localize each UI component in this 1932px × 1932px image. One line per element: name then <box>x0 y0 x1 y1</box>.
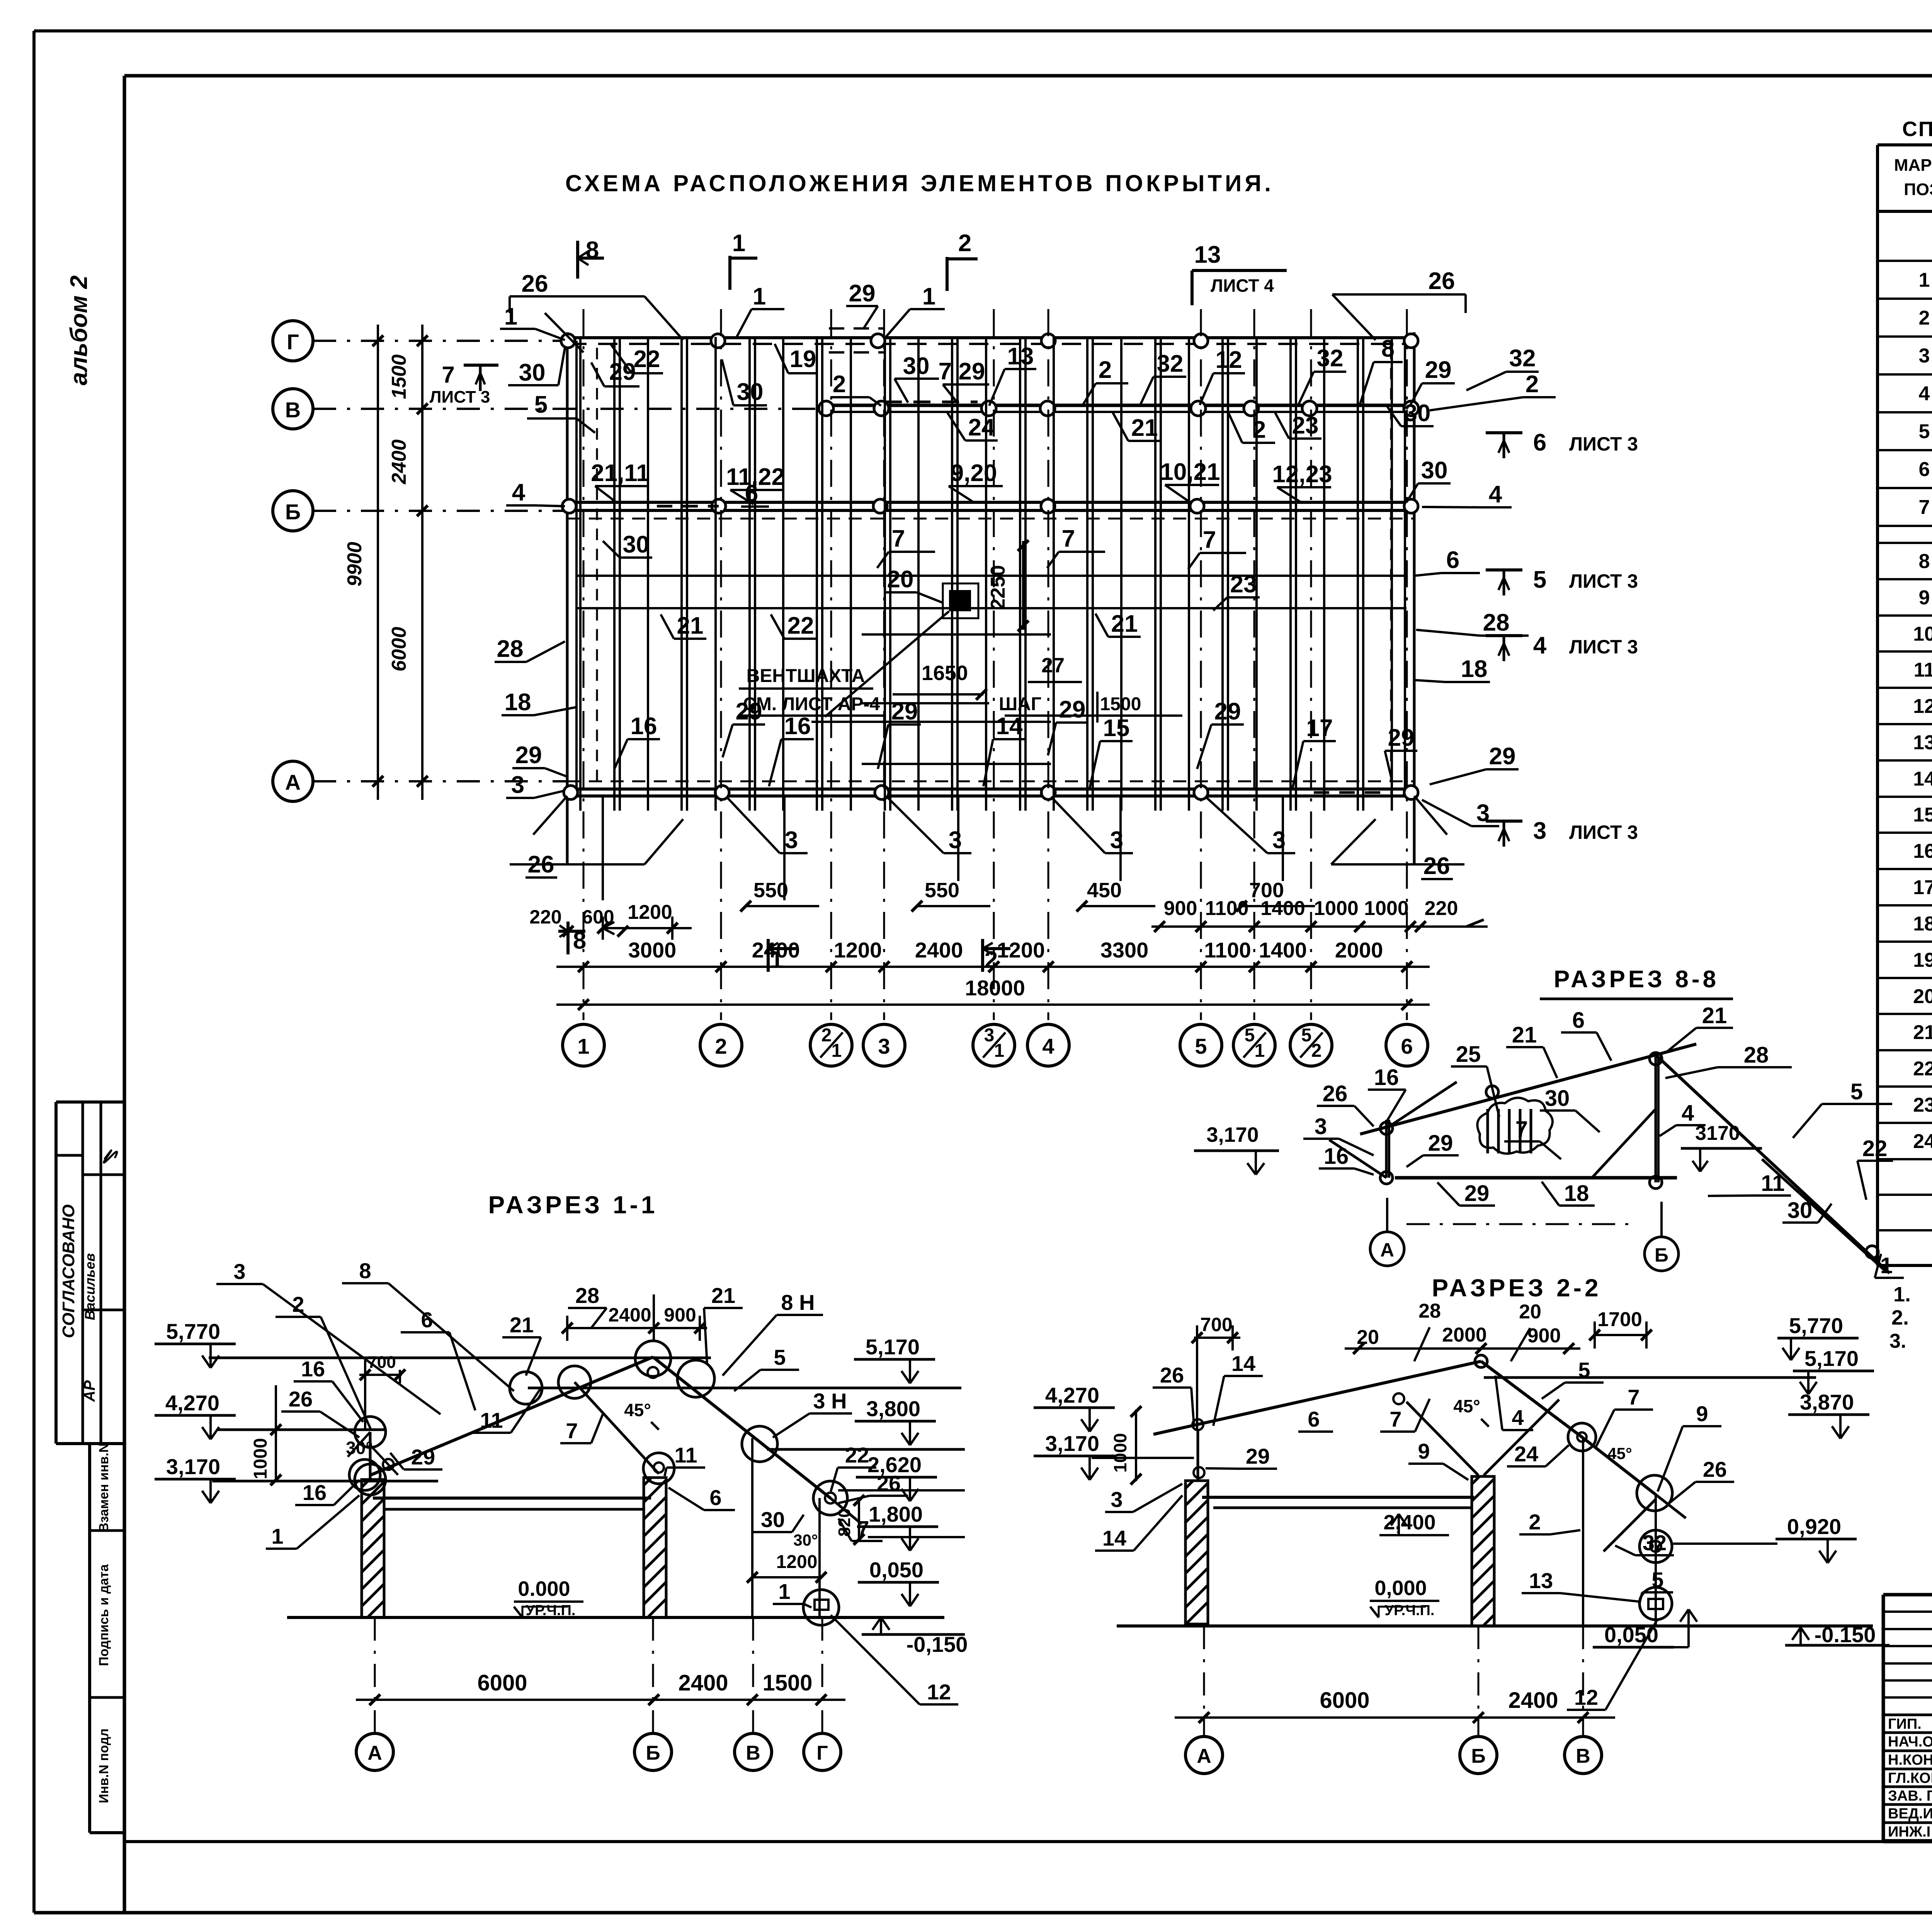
svg-text:2: 2 <box>1529 1510 1541 1534</box>
joint circle on А <box>1404 786 1418 799</box>
s22 eave stub <box>1197 1430 1199 1481</box>
mark 6 лист 3 <box>1486 429 1638 458</box>
svg-text:24: 24 <box>968 414 995 441</box>
svg-text:2: 2 <box>1919 307 1930 329</box>
s11 dim 2400 900 <box>562 1294 707 1341</box>
svg-text:УР.Ч.П.: УР.Ч.П. <box>526 1602 576 1619</box>
label 15 <box>1090 715 1133 788</box>
table row 13 <box>1913 731 1932 754</box>
bottom margin band line <box>124 1840 1932 1843</box>
svg-text:ВЕД.ИНЖ: ВЕД.ИНЖ <box>1888 1806 1932 1822</box>
s88 label 26 <box>1317 1081 1374 1126</box>
axis chain line 2 <box>720 309 722 1020</box>
label 29 <box>1197 698 1244 769</box>
label 29 <box>878 698 921 769</box>
s22 elev 5.770 <box>1777 1313 1859 1360</box>
svg-text:25: 25 <box>1456 1042 1481 1067</box>
svg-text:19: 19 <box>1913 949 1932 971</box>
svg-text:2: 2 <box>715 1034 727 1058</box>
s11 label 21 <box>502 1313 541 1376</box>
table row 8 <box>1919 550 1932 573</box>
svg-text:1650: 1650 <box>922 662 968 685</box>
s11 elev 1.800 <box>857 1502 965 1551</box>
svg-text:0,000: 0,000 <box>1374 1577 1427 1600</box>
svg-text:23: 23 <box>1292 412 1319 439</box>
svg-text:Б: Б <box>646 1742 660 1764</box>
svg-text:13: 13 <box>1913 731 1932 754</box>
s11 label 1 <box>266 1495 359 1549</box>
section 8-8 axis Б <box>1645 1202 1679 1271</box>
svg-text:24: 24 <box>1514 1442 1538 1466</box>
dim 1500 <box>388 354 410 399</box>
svg-text:1: 1 <box>271 1524 283 1548</box>
svg-text:26: 26 <box>1429 268 1455 294</box>
table row 18 <box>1913 913 1932 935</box>
s11 left rafter <box>371 1357 653 1475</box>
s11 angle 45 <box>624 1400 659 1430</box>
s22 post right <box>1655 1495 1657 1626</box>
svg-text:15: 15 <box>1913 804 1932 826</box>
s22 strut 45 right <box>1604 1499 1656 1551</box>
svg-text:1200: 1200 <box>834 938 882 962</box>
s22 label 4 <box>1495 1376 1533 1430</box>
s22 label 24 <box>1507 1442 1569 1466</box>
joint circle on В <box>819 401 833 416</box>
label 2 <box>831 371 881 406</box>
svg-text:29: 29 <box>891 698 918 725</box>
joint circle on Г <box>871 334 885 348</box>
svg-text:18000: 18000 <box>965 976 1025 1000</box>
s22 label 14 <box>1213 1351 1263 1426</box>
section 8-8 ground chain <box>1406 1223 1638 1225</box>
svg-text:ЛИСТ 3: ЛИСТ 3 <box>1569 636 1638 658</box>
svg-text:Взамен инв.N: Взамен инв.N <box>97 1443 111 1532</box>
svg-text:В: В <box>1576 1745 1590 1767</box>
svg-text:6: 6 <box>1533 429 1546 456</box>
joint circle on В <box>1244 401 1259 416</box>
label 18 <box>1414 656 1490 682</box>
svg-text:3: 3 <box>1533 818 1546 844</box>
axis chain line 3/1 <box>993 309 995 1020</box>
svg-text:21: 21 <box>1702 1003 1727 1028</box>
svg-text:А: А <box>367 1742 382 1764</box>
svg-text:29: 29 <box>1246 1444 1270 1468</box>
svg-text:Г: Г <box>287 330 299 354</box>
label 21,11 <box>591 460 650 502</box>
hdr марка поз <box>1894 156 1932 199</box>
svg-text:1500: 1500 <box>388 354 410 399</box>
s11 label 26 <box>281 1387 359 1437</box>
joint circle on Б <box>873 499 887 513</box>
label 23 <box>1213 571 1260 611</box>
axis chain line 5 <box>1200 309 1202 1020</box>
label 30 <box>722 359 767 405</box>
s22 label 29 <box>1206 1444 1277 1469</box>
svg-text:18: 18 <box>1461 656 1488 682</box>
svg-text:23: 23 <box>1913 1094 1932 1116</box>
bottom axis circle 5/1 <box>1233 1024 1275 1066</box>
vertical text Инв.N подл <box>97 1728 111 1803</box>
svg-text:13: 13 <box>1529 1568 1553 1593</box>
svg-text:30°: 30° <box>346 1438 373 1458</box>
svg-text:30: 30 <box>737 379 764 405</box>
text вентшахта <box>739 666 885 716</box>
svg-text:30: 30 <box>519 359 546 386</box>
dim 6000 <box>388 627 410 672</box>
svg-text:1: 1 <box>922 283 935 310</box>
joint circle on Г <box>561 334 575 348</box>
table row 4 <box>1919 383 1932 405</box>
beam on axis А <box>567 781 1414 796</box>
dim row axes <box>556 938 1430 972</box>
label 29 <box>1385 724 1417 777</box>
svg-text:1200: 1200 <box>628 901 672 923</box>
label 23 <box>1275 412 1321 439</box>
s22 elev 0.050 <box>1593 1609 1697 1647</box>
svg-text:В: В <box>285 398 301 422</box>
svg-text:ГЛ.КОНСТ.: ГЛ.КОНСТ. <box>1888 1770 1932 1786</box>
bottom axis circle 3 <box>863 1024 905 1066</box>
svg-text:6: 6 <box>421 1308 433 1332</box>
axis circle В <box>273 389 313 429</box>
svg-text:30: 30 <box>1545 1086 1570 1111</box>
svg-text:ЗАВ. ГР.: ЗАВ. ГР. <box>1888 1788 1932 1804</box>
s88 label 4 <box>1660 1100 1706 1136</box>
svg-text:45°: 45° <box>1607 1444 1632 1463</box>
joint circle on Б <box>1404 499 1418 513</box>
label 7 <box>1047 526 1105 568</box>
svg-text:13: 13 <box>1194 241 1221 268</box>
svg-text:1: 1 <box>778 1579 790 1604</box>
svg-text:3: 3 <box>785 827 798 854</box>
svg-text:16: 16 <box>303 1480 327 1505</box>
svg-text:3: 3 <box>949 827 962 854</box>
svg-text:ПОЗ.: ПОЗ. <box>1904 180 1932 199</box>
s11 axis circle Б <box>634 1617 672 1770</box>
label 30 <box>1406 457 1451 502</box>
table row 20 <box>1913 985 1932 1008</box>
label 1 <box>736 283 784 338</box>
vertical text АР <box>81 1380 98 1402</box>
s22 axis circle В <box>1565 1626 1602 1774</box>
svg-text:7 29: 7 29 <box>939 358 985 385</box>
label 32 <box>1140 350 1186 406</box>
table row 11 <box>1914 659 1932 681</box>
svg-text:5: 5 <box>774 1345 786 1369</box>
svg-text:3: 3 <box>233 1259 245 1284</box>
svg-text:20: 20 <box>1519 1301 1541 1323</box>
svg-text:5: 5 <box>1195 1034 1207 1058</box>
svg-text:Б: Б <box>285 500 301 524</box>
svg-text:ЛИСТ 3: ЛИСТ 3 <box>430 388 490 406</box>
svg-text:0.000: 0.000 <box>518 1577 570 1600</box>
s22 label 3 <box>1105 1484 1182 1512</box>
label 3 <box>506 772 565 798</box>
axis chain line 2/1 <box>830 309 832 1020</box>
svg-text:900: 900 <box>1164 897 1197 920</box>
dashes above В beam <box>885 401 978 403</box>
svg-text:4: 4 <box>1682 1100 1694 1126</box>
table row 23 <box>1913 1094 1932 1116</box>
joint circle on А <box>1194 786 1208 799</box>
svg-text:2400: 2400 <box>388 439 410 485</box>
label 2 <box>1229 413 1275 443</box>
dims 550 550 450 700 <box>740 879 1315 912</box>
svg-text:18: 18 <box>505 689 531 716</box>
joint circle on В <box>981 401 996 416</box>
svg-text:14: 14 <box>996 713 1023 740</box>
svg-text:28: 28 <box>1418 1300 1441 1322</box>
label 20 <box>885 566 943 603</box>
svg-text:В: В <box>746 1742 760 1764</box>
label 17 <box>1293 715 1336 788</box>
vent shaft leader <box>825 611 949 717</box>
dashed vertical left <box>596 348 598 788</box>
svg-text:СМ. ЛИСТ АР-4: СМ. ЛИСТ АР-4 <box>743 694 880 714</box>
label 10,21 <box>1160 459 1220 502</box>
svg-text:29: 29 <box>411 1445 435 1469</box>
s11 eave assembly <box>348 1432 398 1480</box>
svg-text:29: 29 <box>1425 357 1452 383</box>
svg-text:4: 4 <box>512 479 526 506</box>
svg-text:4,270: 4,270 <box>1045 1383 1099 1407</box>
svg-text:А: А <box>1380 1239 1394 1261</box>
joint circle on В <box>874 401 889 416</box>
label 11,22 <box>726 464 785 504</box>
label 6 <box>1414 547 1480 576</box>
svg-text:14: 14 <box>1231 1351 1255 1376</box>
svg-text:26: 26 <box>1423 853 1450 879</box>
joint circle on В <box>1404 401 1418 416</box>
s11 bottom dims <box>356 1670 845 1705</box>
s22 label 14 <box>1095 1495 1182 1551</box>
s11 label 8 Н <box>723 1290 823 1376</box>
s22 label 13 <box>1522 1568 1639 1602</box>
s88 label 11 <box>1708 1171 1791 1196</box>
signature squiggle <box>104 1150 117 1163</box>
beam on axis Г <box>567 338 1414 344</box>
svg-text:9: 9 <box>1919 587 1930 609</box>
svg-text:28: 28 <box>575 1283 599 1308</box>
s11 column A <box>362 1480 384 1617</box>
axis chain line 1 <box>583 309 585 1020</box>
svg-text:11: 11 <box>674 1443 697 1467</box>
s11 label 11 <box>665 1443 705 1476</box>
s11 label 8 <box>342 1259 514 1391</box>
label 29 <box>1410 357 1455 405</box>
s88 label 3 <box>1303 1114 1374 1155</box>
section 1-1 title <box>488 1191 658 1219</box>
svg-text:600: 600 <box>582 906 614 928</box>
svg-text:29: 29 <box>849 280 876 307</box>
label 29 <box>723 698 765 757</box>
section 8-8 cloud <box>1477 1098 1553 1154</box>
joint circle on Г <box>1194 334 1208 348</box>
s11 axis circle Г <box>804 1617 841 1770</box>
s22 label 5 <box>1542 1358 1604 1399</box>
svg-text:5: 5 <box>534 391 548 418</box>
s11 post G <box>818 1498 821 1617</box>
label 3 <box>1422 800 1499 827</box>
label 16 <box>769 713 814 786</box>
joint circle on В <box>1302 401 1317 416</box>
svg-text:7: 7 <box>1203 527 1216 553</box>
joint circle on А <box>564 786 578 799</box>
svg-text:22: 22 <box>845 1443 869 1467</box>
s22 label 9 <box>1658 1401 1721 1492</box>
svg-text:20: 20 <box>887 566 914 593</box>
svg-text:9,20: 9,20 <box>951 460 997 486</box>
table row 14 <box>1913 768 1932 790</box>
label 3 <box>1206 797 1295 854</box>
svg-text:5: 5 <box>1301 1025 1312 1046</box>
table row 10 <box>1913 623 1932 645</box>
dashes on Б left <box>657 505 719 508</box>
s11 label 7 <box>838 1516 883 1541</box>
svg-text:1000: 1000 <box>250 1438 271 1480</box>
label 1 <box>885 283 945 338</box>
svg-text:3 Н: 3 Н <box>813 1389 847 1413</box>
s11 label 26 <box>838 1471 908 1503</box>
vertical text Взамен инв.N <box>97 1443 111 1532</box>
dims 220 600 <box>529 906 628 937</box>
dim 2400 <box>388 439 410 485</box>
table row 17 <box>1913 876 1932 899</box>
label 32 <box>1298 345 1346 405</box>
svg-text:5,770: 5,770 <box>166 1319 220 1344</box>
svg-text:1500: 1500 <box>1100 694 1141 714</box>
dashed box at 2/1 <box>829 328 885 352</box>
s11 label 29 <box>390 1445 442 1469</box>
axis chain line 4 <box>1048 309 1049 1020</box>
svg-text:3: 3 <box>1272 827 1286 854</box>
s11 post V <box>751 1438 753 1617</box>
axis chain line 3 <box>883 309 885 1020</box>
svg-text:РАЗРЕЗ 1-1: РАЗРЕЗ 1-1 <box>488 1191 658 1219</box>
table grid <box>1878 145 1932 1265</box>
svg-text:22: 22 <box>634 346 660 372</box>
svg-text:29: 29 <box>1388 724 1415 751</box>
svg-text:18: 18 <box>1564 1181 1589 1206</box>
axis circle Б <box>273 491 313 531</box>
svg-text:1: 1 <box>1880 1253 1893 1278</box>
s11 node square <box>815 1600 828 1610</box>
purlin seg a <box>862 633 1051 636</box>
svg-text:7: 7 <box>442 362 454 388</box>
label 32 <box>1466 345 1539 390</box>
svg-text:5: 5 <box>1578 1358 1590 1382</box>
label 26 <box>1421 853 1453 879</box>
label 22 <box>771 612 817 639</box>
svg-text:26: 26 <box>522 270 548 297</box>
s11 label 2 <box>276 1292 371 1430</box>
section 8-8 title <box>1540 966 1733 999</box>
text шаг 1500 <box>999 692 1182 723</box>
svg-text:1000: 1000 <box>1110 1433 1130 1473</box>
table title <box>1902 117 1932 141</box>
corner TL <box>510 296 683 352</box>
s11 right rafter <box>653 1357 862 1524</box>
label 21 <box>661 612 706 639</box>
table row 1 <box>1919 269 1932 291</box>
svg-text:21,11: 21,11 <box>591 460 650 486</box>
margin stamp: inv table <box>90 1444 124 1833</box>
axis line А <box>313 780 567 782</box>
svg-text:Н.КОНТР.: Н.КОНТР. <box>1888 1752 1932 1768</box>
s11 elev 0.050 <box>858 1558 939 1606</box>
s22 label 5 <box>1639 1568 1673 1604</box>
svg-text:30°: 30° <box>793 1531 818 1549</box>
svg-text:-0.150: -0.150 <box>1815 1622 1876 1647</box>
label 3 <box>726 797 808 854</box>
s11 dim 700 <box>359 1353 405 1430</box>
svg-text:1: 1 <box>732 230 745 257</box>
svg-text:26: 26 <box>1160 1363 1184 1387</box>
axis circle А <box>273 761 313 801</box>
label 21 <box>1113 413 1161 441</box>
titleblock row Н.КОНТР. <box>1888 1751 1932 1768</box>
svg-text:5,770: 5,770 <box>1789 1313 1843 1338</box>
svg-text:3,800: 3,800 <box>866 1396 920 1421</box>
s22 dim 2.400 <box>1379 1511 1449 1535</box>
s88 elev 3.170 left <box>1194 1123 1279 1175</box>
svg-text:РАЗРЕЗ 8-8: РАЗРЕЗ 8-8 <box>1554 966 1719 993</box>
svg-text:1200: 1200 <box>997 938 1045 962</box>
svg-text:21: 21 <box>1913 1021 1932 1044</box>
svg-text:ГИП.: ГИП. <box>1888 1716 1922 1732</box>
svg-text:А: А <box>1197 1745 1211 1767</box>
vertical text Васильев <box>82 1253 98 1320</box>
label 30 <box>603 531 652 558</box>
svg-text:1100: 1100 <box>1204 938 1251 962</box>
label 9,20 <box>949 460 1003 502</box>
svg-text:14: 14 <box>1913 768 1932 790</box>
svg-text:220: 220 <box>529 906 561 928</box>
dashes on А right <box>1314 791 1391 794</box>
svg-text:7: 7 <box>1515 1117 1528 1142</box>
note 3 <box>1889 1330 1932 1352</box>
svg-text:СОГЛАСОВАНО: СОГЛАСОВАНО <box>59 1204 78 1338</box>
joint circle on Б <box>712 499 726 513</box>
svg-text:900: 900 <box>1527 1325 1561 1347</box>
table row 19 <box>1913 949 1932 971</box>
svg-text:6000: 6000 <box>477 1670 527 1696</box>
section mark 8 bottom <box>558 922 586 954</box>
svg-text:12: 12 <box>1913 695 1932 718</box>
s22 top dims <box>1345 1300 1652 1361</box>
svg-text:1100: 1100 <box>1205 897 1249 920</box>
s22 elev -0.150 <box>1785 1622 1889 1647</box>
s22 elev 5.170 <box>1793 1346 1874 1394</box>
s11 ceiling beam <box>373 1498 651 1509</box>
svg-text:700: 700 <box>1200 1314 1232 1335</box>
svg-text:1200: 1200 <box>776 1552 818 1572</box>
purlin seg b <box>862 702 989 704</box>
svg-text:2: 2 <box>833 371 846 398</box>
svg-text:2: 2 <box>1099 357 1112 383</box>
svg-text:ЛИСТ 3: ЛИСТ 3 <box>1569 433 1638 455</box>
svg-text:УР.Ч.П.: УР.Ч.П. <box>1385 1602 1435 1619</box>
axis chain line 5/2 <box>1310 309 1312 1020</box>
svg-text:17: 17 <box>1913 876 1932 899</box>
svg-text:30: 30 <box>623 531 650 558</box>
svg-text:29: 29 <box>1489 743 1516 770</box>
s22 label 7 <box>1380 1399 1430 1432</box>
canopy beam on axis В <box>826 405 1414 412</box>
svg-text:29: 29 <box>515 742 542 769</box>
svg-text:28: 28 <box>1483 609 1510 636</box>
svg-text:13: 13 <box>1007 343 1034 370</box>
